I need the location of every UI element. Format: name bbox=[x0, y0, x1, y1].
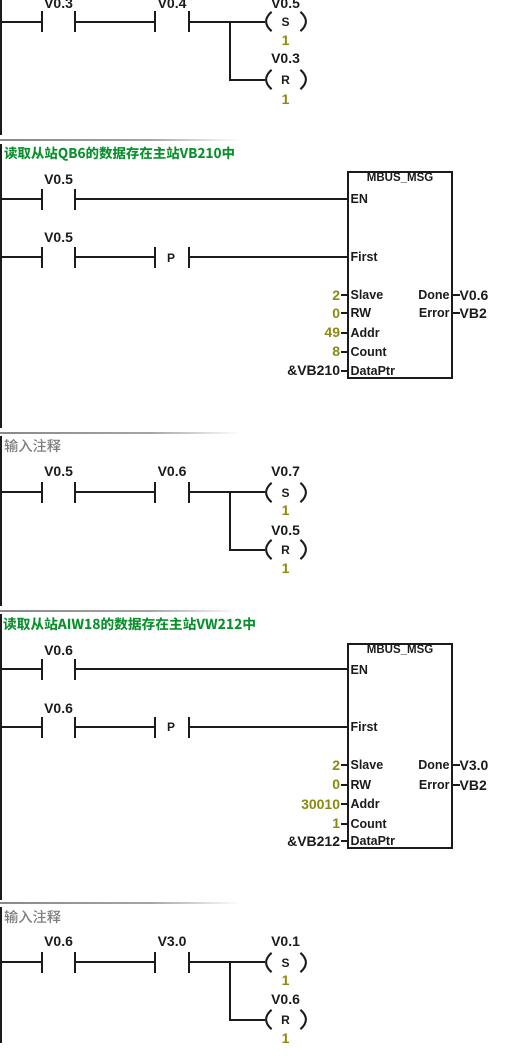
coil V0.6 (R) bbox=[263, 1008, 309, 1031]
pin Done bbox=[0, 0, 516, 1]
contact V0.3 bbox=[0, 0, 516, 1]
value 0 bbox=[240, 306, 340, 320]
pin Count bbox=[0, 0, 516, 1]
label V0.6 (contact 2 net3) bbox=[137, 464, 207, 478]
wire to R coil bbox=[231, 1019, 265, 1021]
contact V0.4 bbox=[0, 0, 516, 1]
network comment: read slave QB6 data to master VB210 bbox=[4, 143, 274, 163]
value 1 bbox=[240, 816, 340, 830]
wire bbox=[76, 21, 154, 23]
output operand V3.0 bbox=[460, 758, 489, 772]
pin Addr bbox=[0, 0, 516, 1]
branch wire bbox=[229, 491, 231, 551]
wire bbox=[76, 726, 154, 728]
value 8 bbox=[240, 344, 340, 358]
wire to EN bbox=[76, 198, 347, 200]
network comment: read slave AIW18 data to master VW212 bbox=[3, 614, 273, 634]
network separator bbox=[0, 610, 516, 612]
contact V0.6 bbox=[0, 0, 516, 1]
label V0.3 (contact 1 net1) bbox=[24, 0, 94, 10]
label V0.3 (R coil net1) bbox=[251, 51, 321, 65]
pin DataPtr bbox=[0, 0, 516, 1]
function block MBUS_MSG (U1) bbox=[347, 171, 453, 379]
left power rail bbox=[0, 436, 2, 606]
pin DataPtr bbox=[0, 0, 516, 1]
label V3.0 (contact 2 net5) bbox=[137, 934, 207, 948]
wire bbox=[0, 256, 41, 258]
wire to EN bbox=[76, 668, 347, 670]
wire to First bbox=[190, 256, 347, 258]
pin Error bbox=[0, 0, 516, 1]
wire bbox=[76, 961, 154, 963]
contact V0.5 bbox=[0, 0, 516, 1]
wire bbox=[190, 961, 265, 963]
value 1 bbox=[266, 92, 306, 106]
network comment placeholder (input comment) bbox=[4, 907, 274, 927]
wire bbox=[0, 668, 41, 670]
contact V0.5 bbox=[0, 0, 516, 1]
network comment placeholder (input comment) bbox=[4, 436, 274, 456]
value 49 bbox=[240, 325, 340, 339]
branch wire bbox=[229, 961, 231, 1021]
wire bbox=[190, 21, 265, 23]
pin EN bbox=[351, 193, 368, 206]
label V0.5 (S coil net1) bbox=[251, 0, 321, 10]
label V0.6 (First contact) bbox=[24, 701, 94, 715]
output operand V0.6 bbox=[460, 288, 489, 302]
wire bbox=[76, 256, 154, 258]
network separator bbox=[0, 432, 516, 434]
left power rail bbox=[0, 0, 2, 135]
wire to R coil bbox=[231, 549, 265, 551]
label V0.5 (contact 1 net3) bbox=[24, 464, 94, 478]
network separator bbox=[0, 902, 516, 904]
contact V3.0 bbox=[0, 0, 516, 1]
pin EN bbox=[351, 664, 368, 677]
pin RW bbox=[0, 0, 516, 1]
contact V0.6 bbox=[0, 0, 516, 1]
contact V0.5 bbox=[0, 0, 516, 1]
network separator bbox=[0, 139, 516, 141]
pin Addr bbox=[0, 0, 516, 1]
left power rail bbox=[0, 144, 2, 429]
label V0.1 (S coil net5) bbox=[251, 934, 321, 948]
value 1 bbox=[266, 503, 306, 517]
coil V0.3 (R) bbox=[263, 68, 309, 91]
wire bbox=[0, 726, 41, 728]
left power rail bbox=[0, 907, 2, 1044]
wire bbox=[190, 491, 265, 493]
wire to First bbox=[190, 726, 347, 728]
label V0.6 (contact 1 net5) bbox=[24, 934, 94, 948]
pin Count bbox=[0, 0, 516, 1]
output operand VB2 bbox=[460, 306, 487, 320]
pin Error bbox=[0, 0, 516, 1]
wire bbox=[0, 21, 41, 23]
coil V0.1 (S) bbox=[263, 951, 309, 974]
label V0.5 (R coil net3) bbox=[251, 523, 321, 537]
coil V0.5 (S) bbox=[263, 10, 309, 33]
value 1 bbox=[266, 33, 306, 47]
value 1 bbox=[266, 973, 306, 987]
wire bbox=[76, 491, 154, 493]
wire bbox=[0, 491, 41, 493]
label V0.6 (EN contact) bbox=[24, 643, 94, 657]
pin Slave bbox=[0, 0, 516, 1]
wire to R coil bbox=[231, 79, 265, 81]
value 2 bbox=[240, 758, 340, 772]
pin Done bbox=[0, 0, 516, 1]
value &VB212 bbox=[240, 834, 340, 848]
value &VB210 bbox=[240, 363, 340, 377]
block title MBUS_MSG bbox=[350, 645, 450, 657]
block title MBUS_MSG bbox=[350, 173, 450, 185]
contact P (positive edge) bbox=[0, 0, 516, 1]
left power rail bbox=[0, 614, 2, 900]
label V0.4 (contact 2 net1) bbox=[137, 0, 207, 10]
wire bbox=[0, 198, 41, 200]
value 1 bbox=[266, 1031, 306, 1045]
value 0 bbox=[240, 777, 340, 791]
label V0.6 (R coil net5) bbox=[251, 992, 321, 1006]
value 30010 bbox=[240, 797, 340, 811]
contact V0.6 bbox=[0, 0, 516, 1]
pin First bbox=[351, 251, 378, 264]
output operand VB2 bbox=[460, 778, 487, 792]
contact V0.6 bbox=[0, 0, 516, 1]
value 2 bbox=[240, 288, 340, 302]
contact P (positive edge) bbox=[0, 0, 516, 1]
pin RW bbox=[0, 0, 516, 1]
coil V0.5 (R) bbox=[263, 538, 309, 561]
coil V0.7 (S) bbox=[263, 481, 309, 504]
wire bbox=[0, 961, 41, 963]
branch wire bbox=[229, 21, 231, 81]
label V0.5 (First contact) bbox=[24, 230, 94, 244]
pin Slave bbox=[0, 0, 516, 1]
pin First bbox=[351, 721, 378, 734]
label V0.7 (S coil net3) bbox=[251, 464, 321, 478]
value 1 bbox=[266, 561, 306, 575]
function block MBUS_MSG (U2) bbox=[347, 643, 453, 849]
label V0.5 (EN contact) bbox=[24, 172, 94, 186]
